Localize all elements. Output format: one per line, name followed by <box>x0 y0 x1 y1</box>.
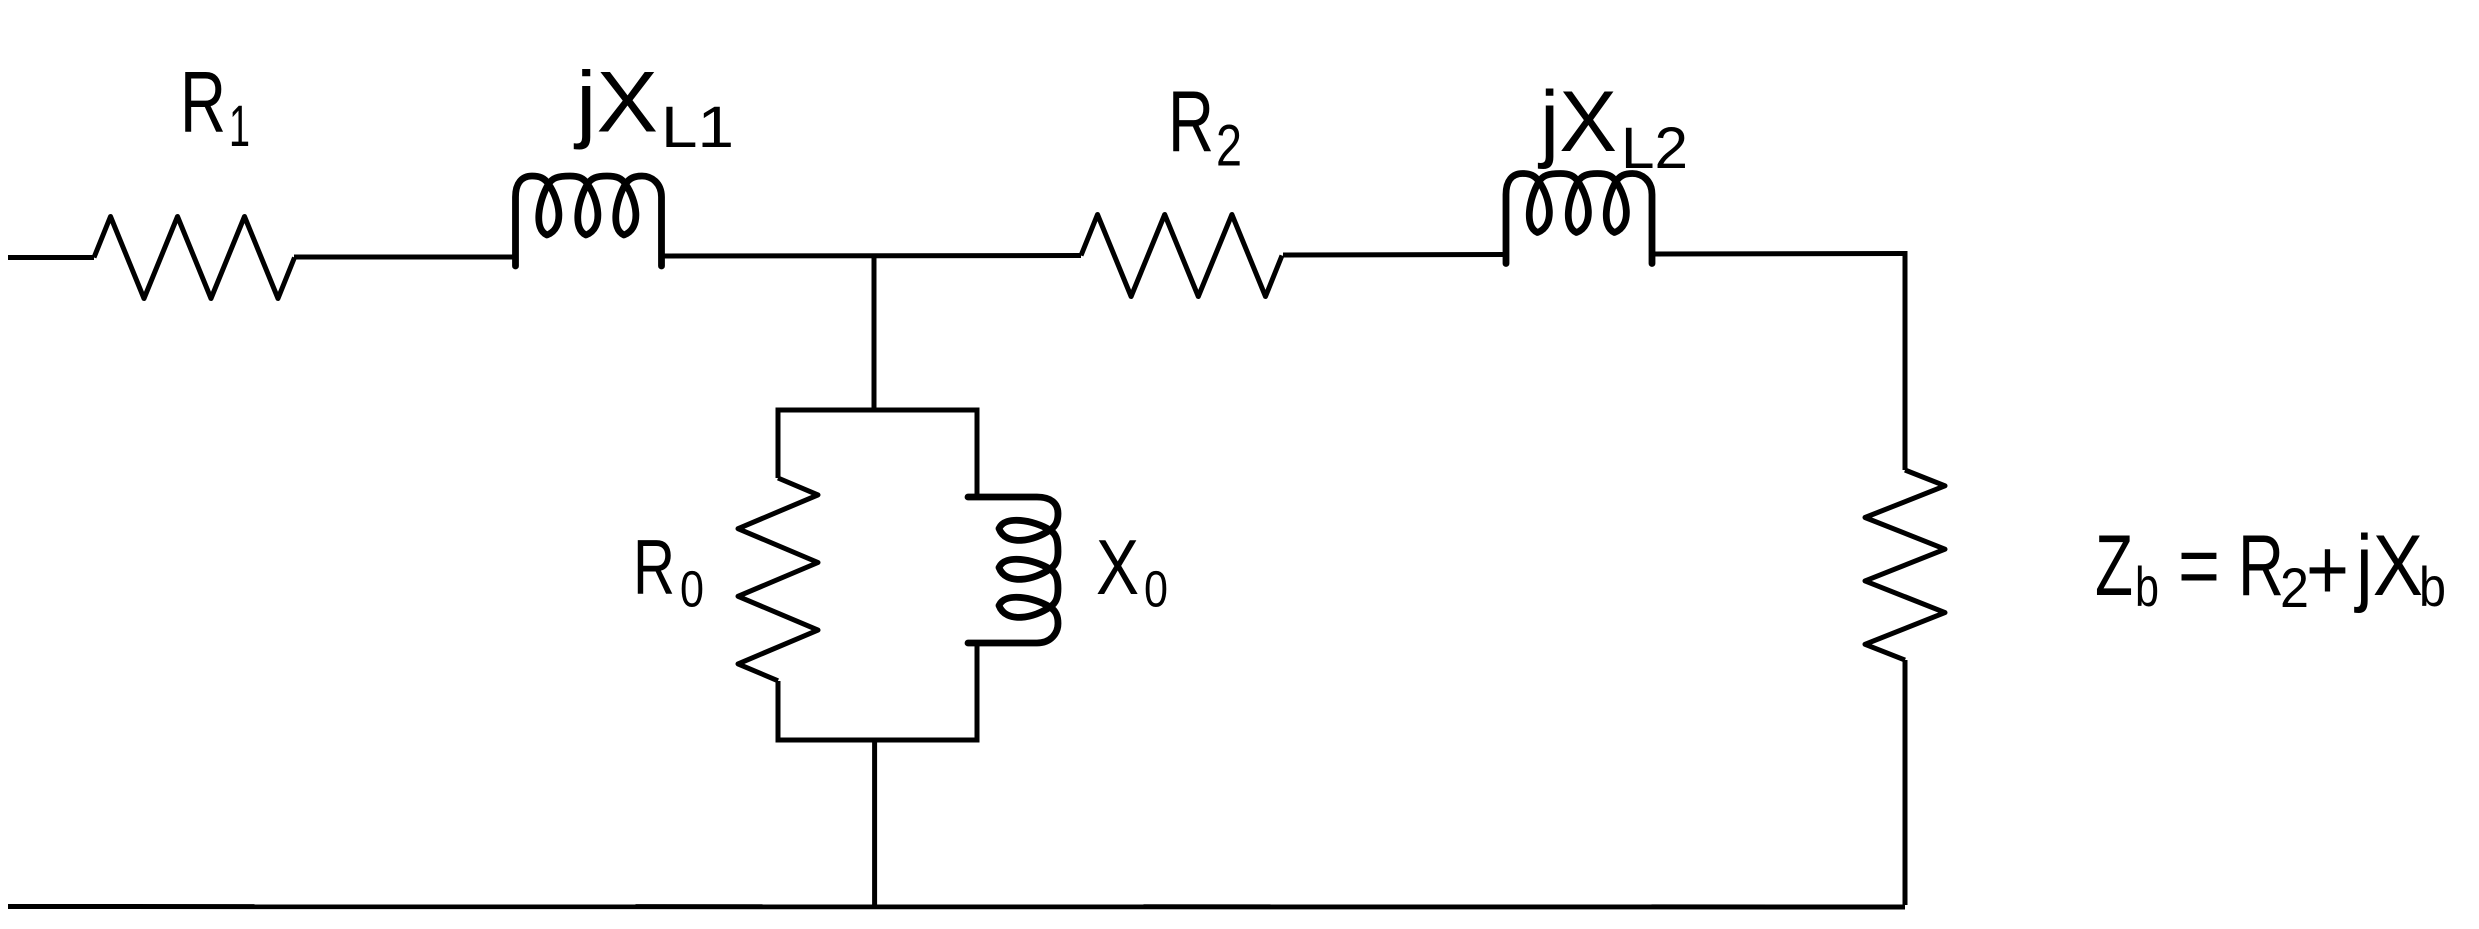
svg-text:jX: jX <box>573 55 658 151</box>
svg-text:0: 0 <box>680 561 704 618</box>
inductor jXL2 <box>1506 174 1652 264</box>
wire top rail segment 3 <box>662 253 1082 259</box>
svg-text:L2: L2 <box>1621 116 1688 181</box>
label jXL1 <box>573 55 734 161</box>
label Zb equation <box>2095 518 2446 619</box>
wire box top <box>776 408 980 413</box>
svg-text:+: + <box>2306 522 2349 618</box>
wire right vertical lower <box>1903 660 1908 905</box>
svg-text:X: X <box>1096 523 1139 611</box>
wire box left lower <box>776 681 781 740</box>
wire top rail segment 4 <box>1283 252 1506 258</box>
svg-text:jX: jX <box>1537 74 1617 170</box>
svg-text:R: R <box>180 55 226 151</box>
wire box right upper <box>975 410 980 497</box>
svg-text:=: = <box>2178 518 2220 614</box>
wire bottom stem <box>872 740 877 905</box>
wire top rail segment 5 <box>1652 251 1908 257</box>
svg-text:R: R <box>633 523 675 611</box>
resistor R1 <box>94 217 295 299</box>
resistor R2 <box>1081 215 1282 297</box>
svg-text:Z: Z <box>2095 518 2133 614</box>
svg-text:2: 2 <box>1216 114 1242 179</box>
svg-text:L1: L1 <box>661 95 734 160</box>
wire top rail segment 2 <box>294 255 516 260</box>
svg-text:jX: jX <box>2353 518 2423 614</box>
label R1 <box>180 55 250 160</box>
wire bottom rail <box>8 904 1905 910</box>
svg-text:b: b <box>2135 555 2159 618</box>
svg-text:0: 0 <box>1144 561 1168 618</box>
label R0 <box>633 523 704 618</box>
svg-text:b: b <box>2419 555 2446 618</box>
wire top rail segment 1 <box>8 255 94 260</box>
inductor jXL1 <box>516 176 662 266</box>
wire box left upper <box>776 410 781 478</box>
svg-text:2: 2 <box>2280 556 2309 619</box>
resistor Zb <box>1865 470 1945 660</box>
label X0 <box>1096 523 1168 618</box>
wire junction stem <box>872 256 877 413</box>
wire box bottom <box>776 738 980 743</box>
label R2 <box>1168 74 1242 179</box>
wire right vertical upper <box>1903 251 1908 470</box>
svg-text:R: R <box>1168 74 1214 170</box>
svg-text:R: R <box>2238 518 2284 614</box>
svg-text:1: 1 <box>229 94 250 159</box>
resistor R0 <box>738 478 818 681</box>
wire box right lower <box>975 643 980 740</box>
label jXL2 <box>1537 74 1688 181</box>
inductor X0 <box>968 497 1058 643</box>
